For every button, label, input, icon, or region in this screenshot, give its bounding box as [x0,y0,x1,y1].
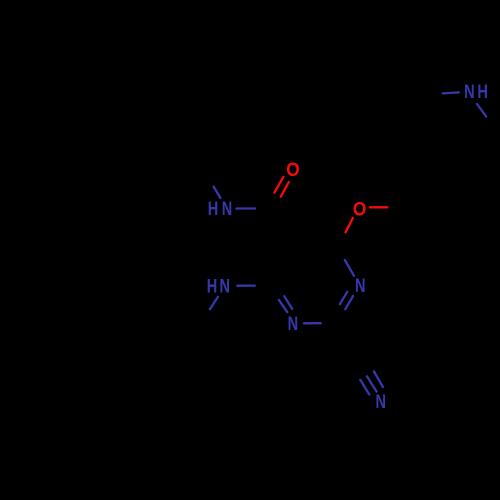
ring N3=C2 double bond inner line (blue half) [340,292,348,305]
svg-text:H: H [208,199,219,220]
ether O to ring C4 bond (red half) [346,218,353,232]
svg-text:N: N [288,314,299,335]
ring N1-C2 bond (blue half) [304,322,321,324]
amide N to carbonyl C bond (blue half) [237,207,256,209]
svg-text:O: O [353,199,366,220]
svg-text:N: N [355,276,366,297]
svg-text:H: H [477,82,488,103]
ring N3-C4 bond (blue half) [345,260,354,276]
methylamino N to methyl bond (blue half) [210,297,218,309]
methylamino N to ring C6 bond (blue half) [237,284,255,286]
nitrile triple bond upper-right line (blue half) [374,372,383,388]
svg-text:N: N [220,276,231,297]
dimethylamine N to lower-right methyl bond (blue half) [477,104,486,117]
ring N1=C6 double bond main line (blue half) [279,300,287,312]
dimethylamine N to left methyl bond (blue half) [443,92,459,93]
svg-text:O: O [286,160,299,181]
svg-text:N: N [222,199,233,220]
nitrile triple bond center line (blue half) [367,376,377,391]
carbonyl C=O main line (red half) [281,182,289,197]
svg-text:H: H [207,276,218,297]
amide N to methyl bond (blue half) [214,187,221,198]
svg-text:N: N [464,82,475,103]
svg-text:N: N [376,392,387,413]
nitrile triple bond lower-left line (blue half) [360,380,369,395]
ether O to methyl bond (red half) [370,206,387,208]
carbonyl C=O second line (red half) [275,177,284,193]
ring N3=C2 double bond main line (blue half) [345,296,353,309]
ring N1=C6 double bond inner line (blue half) [284,296,292,309]
